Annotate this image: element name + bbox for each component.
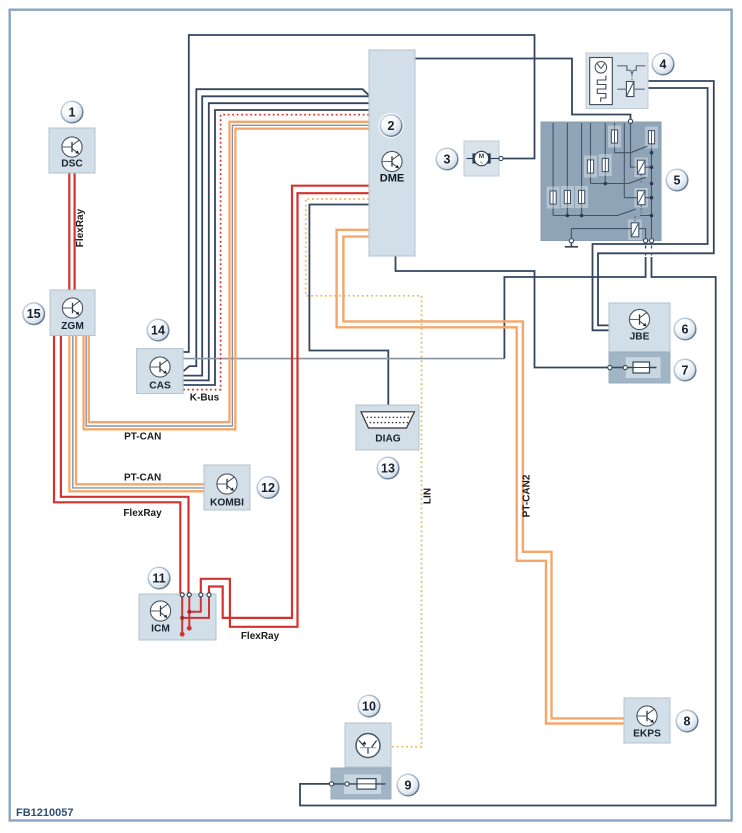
- svg-text:3: 3: [444, 153, 451, 167]
- fuse F4: [602, 158, 608, 171]
- svg-text:ICM: ICM: [151, 624, 170, 635]
- wire box5 bottom bus and switch S3: [553, 209, 651, 215]
- svg-text:PT-CAN: PT-CAN: [124, 473, 161, 484]
- ECU symbol KOMBI: [217, 474, 237, 494]
- wire box5 drop from top connector: [631, 124, 638, 168]
- wire box5 vertical 3: [581, 123, 583, 191]
- svg-text:M: M: [479, 153, 484, 160]
- ECU symbol EKPS: [637, 706, 657, 726]
- callout 4: [650, 51, 675, 76]
- callout 8: [674, 708, 699, 733]
- box4 relay: [626, 82, 634, 97]
- wire box5 relay K2 connections: [624, 197, 651, 199]
- wire box5 relay K3 connections: [571, 229, 645, 239]
- svg-text:15: 15: [27, 307, 41, 321]
- ECU symbol ICM: [150, 601, 170, 621]
- dashed actuator links: [640, 175, 642, 183]
- svg-text:PT-CAN2: PT-CAN2: [522, 474, 533, 517]
- box DSC (ECU 1): [49, 128, 95, 173]
- fuse F6: [564, 190, 570, 203]
- wire box5 vertical 6: [614, 123, 616, 130]
- wire navy DME-CAS line 3: [184, 103, 370, 380]
- ECU symbol DME: [382, 151, 402, 171]
- svg-text:KOMBI: KOMBI: [210, 498, 244, 509]
- wire gray CAS to box5 bottom: [184, 358, 505, 360]
- wire box5 vertical 7: [623, 123, 625, 198]
- svg-text:∿: ∿: [480, 160, 484, 165]
- wire red ICM internal stub 1 with terminator: [181, 596, 183, 634]
- svg-text:13: 13: [381, 462, 395, 476]
- fuse 9 inner box: [344, 775, 381, 795]
- wire red ICM internal stub 2 with terminator: [188, 596, 190, 628]
- svg-text:FlexRay: FlexRay: [123, 508, 162, 519]
- box JBE (ECU 6): [609, 303, 670, 352]
- callout 7: [672, 357, 697, 382]
- box 3 starter motor: [464, 141, 499, 176]
- callout 10: [356, 693, 381, 718]
- svg-text:14: 14: [151, 324, 165, 338]
- wire navy DME right to box5 top: [415, 59, 631, 120]
- fuse F1: [611, 130, 617, 143]
- callout 15: [21, 301, 46, 326]
- wire box5 vertical 1: [552, 123, 554, 191]
- box 9 fuse box: [331, 768, 391, 799]
- callout 12: [255, 475, 280, 500]
- connector circles box5 bottom: [644, 239, 648, 243]
- svg-text:8: 8: [684, 715, 691, 729]
- callout 1: [59, 99, 84, 124]
- box DIAG (13): [356, 405, 419, 450]
- wire box5 switch S2: [591, 177, 646, 183]
- wire navy riser CAS line to box5: [504, 257, 645, 359]
- callout 5: [664, 167, 689, 192]
- svg-text:5: 5: [674, 174, 681, 188]
- svg-text:FlexRay: FlexRay: [75, 208, 86, 247]
- svg-text:12: 12: [261, 481, 275, 495]
- fuse 9 symbol: [357, 779, 376, 789]
- box4 white sub-box: [590, 58, 613, 105]
- callout 2: [378, 113, 403, 138]
- box 10 fuel sensor: [345, 723, 391, 767]
- ECU symbol CAS: [150, 357, 170, 377]
- svg-text:CAS: CAS: [149, 381, 171, 392]
- fuse glow backgrounds box5: [547, 126, 658, 241]
- sensor symbol box10: [356, 734, 380, 758]
- wire red ICM internal link dot1-dot4: [182, 596, 209, 618]
- wire LIN dotted gold DME to box10: [306, 199, 422, 747]
- svg-text:11: 11: [152, 572, 165, 586]
- relay K2 in box5: [637, 191, 645, 205]
- svg-text:LIN: LIN: [423, 488, 434, 504]
- callout 3: [434, 146, 459, 171]
- box CAS (ECU 14): [137, 349, 184, 394]
- wire FlexRay red ICM loop to DME inner: [209, 186, 369, 618]
- starter motor symbol M: [467, 151, 499, 165]
- wire navy DME left to DIAG: [309, 205, 388, 406]
- ECU symbol DSC: [62, 137, 82, 157]
- connector circles fuse 9: [329, 782, 333, 786]
- box4 valve flap symbol: [617, 66, 645, 71]
- connector circle box5 top: [628, 119, 632, 123]
- svg-text:DME: DME: [380, 173, 404, 185]
- fuse F7: [579, 190, 585, 203]
- box DME (ECU 2): [369, 50, 415, 256]
- wire red ICM internals redrawn above box: [182, 596, 209, 634]
- wire FlexRay red ICM loop to DME outer: [201, 193, 369, 627]
- fuse F5: [550, 191, 556, 204]
- wire box5 vertical 4: [590, 123, 592, 160]
- callout 9: [395, 772, 420, 797]
- svg-text:4: 4: [660, 58, 667, 72]
- relay K3 in box5: [631, 223, 639, 237]
- box KOMBI (ECU 12): [204, 465, 250, 510]
- svg-text:2: 2: [388, 119, 395, 133]
- wire box5 vertical 5: [604, 123, 606, 159]
- ground symbol below box5: [565, 243, 578, 247]
- wire fuse 9 leads: [334, 783, 386, 785]
- wire PT-CAN orange ZGM-DME triple: [84, 129, 369, 430]
- callout 11: [146, 565, 171, 590]
- wire navy box5 bottom to fuse box9 (right side long run): [300, 257, 716, 806]
- callout 6: [672, 316, 697, 341]
- box JBE fuse section (7): [609, 352, 670, 383]
- wire navy DME-CAS line 1 (with bevels): [184, 89, 370, 371]
- svg-text:K-Bus: K-Bus: [190, 393, 220, 404]
- svg-text:7: 7: [682, 364, 689, 378]
- DIAG connector trapezoid: [361, 412, 415, 428]
- ECU symbol ZGM: [62, 298, 82, 318]
- wire fuse 7 lead: [612, 367, 657, 369]
- relay K1 in box5: [637, 160, 645, 174]
- svg-text:DIAG: DIAG: [375, 434, 401, 445]
- fuse F3: [587, 160, 593, 173]
- connector circles fuse 7: [608, 365, 612, 369]
- wire box5 switch S1: [615, 146, 648, 153]
- wire navy DME bottom to JBE fuse: [396, 256, 610, 368]
- svg-text:JBE: JBE: [630, 332, 650, 343]
- wire box5 relay K1 to bus: [645, 166, 652, 168]
- box4 step wave: [597, 76, 606, 102]
- svg-text:FlexRay: FlexRay: [241, 631, 280, 642]
- fuse 7 symbol: [633, 362, 650, 373]
- box4 sensor circle: [595, 62, 607, 74]
- svg-text:10: 10: [362, 700, 376, 714]
- svg-text:EKPS: EKPS: [633, 729, 661, 740]
- box ICM (ECU 11): [139, 594, 216, 640]
- box ZGM (ECU 15): [50, 290, 95, 336]
- callout 14: [145, 317, 170, 342]
- svg-text:1: 1: [69, 106, 76, 120]
- wire red ICM internal link dot2-dot3: [189, 596, 201, 612]
- svg-text:6: 6: [682, 323, 689, 337]
- wire FlexRay red ZGM-ICM pair: [54, 336, 180, 594]
- svg-text:FB1210057: FB1210057: [16, 807, 74, 819]
- wire navy CAS to starter box3 loop (top): [184, 35, 535, 352]
- box EKPS (ECU 8): [624, 698, 670, 743]
- svg-text:ZGM: ZGM: [61, 321, 84, 332]
- connector circle box3 output: [499, 156, 503, 160]
- callout 13: [375, 455, 400, 480]
- svg-text:DSC: DSC: [61, 159, 83, 170]
- svg-text:9: 9: [405, 779, 412, 793]
- connector circles ICM top: [180, 593, 184, 597]
- wire navy box4 out1 to JBE: [598, 81, 714, 325]
- wire box5 fuse stubs to buses: [552, 204, 554, 216]
- connector circle box5 ground: [569, 239, 573, 243]
- dashes below bottom connectors: [651, 246, 653, 256]
- wire FlexRay red DSC-ZGM pair: [68, 173, 70, 290]
- box 4 valve module: [586, 53, 648, 109]
- box 5 power distribution: [541, 122, 661, 241]
- ECU symbol JBE: [629, 309, 649, 329]
- junction dots box5: [566, 151, 654, 217]
- wire navy box4 out2 to JBE: [593, 88, 708, 330]
- wire box5 vertical 2: [566, 123, 568, 191]
- fuse 7 inner box: [626, 357, 661, 378]
- wire navy DME-CAS line 4: [184, 110, 370, 385]
- svg-text:PT-CAN: PT-CAN: [124, 432, 161, 443]
- fuse F2: [648, 131, 654, 144]
- wire K-Bus dotted red DME to CAS: [184, 115, 370, 390]
- wire PT-CAN2 orange DME-EKPS pair: [337, 230, 624, 724]
- wire PT-CAN orange ZGM-KOMBI triple: [69, 336, 204, 492]
- wire navy DME-CAS line 2: [184, 96, 370, 375]
